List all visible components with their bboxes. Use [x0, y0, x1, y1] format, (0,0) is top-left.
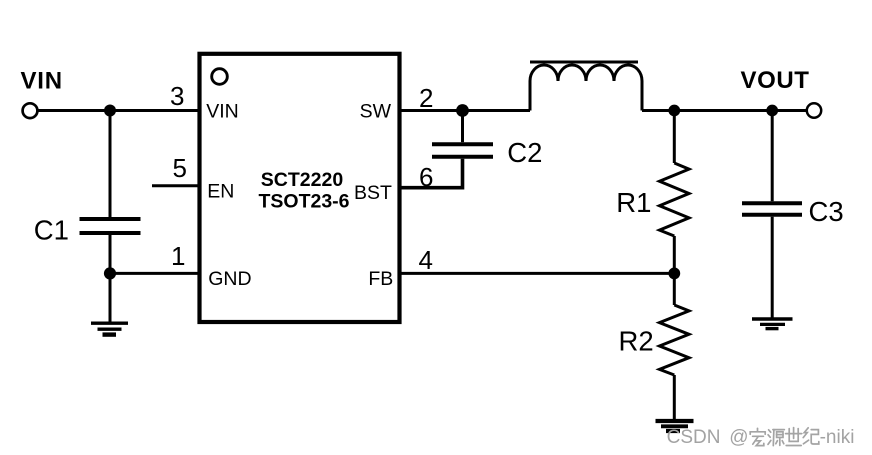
svg-text:1: 1 — [171, 241, 185, 271]
svg-text:R2: R2 — [619, 325, 654, 356]
svg-text:VIN: VIN — [21, 68, 63, 95]
svg-text:3: 3 — [170, 81, 184, 111]
svg-text:BST: BST — [354, 182, 392, 204]
svg-text:GND: GND — [208, 268, 251, 290]
svg-text:C3: C3 — [809, 196, 844, 227]
svg-text:6: 6 — [419, 162, 433, 192]
svg-text:C1: C1 — [34, 215, 69, 246]
svg-text:CSDN: CSDN — [667, 427, 721, 448]
svg-text:5: 5 — [173, 153, 187, 183]
svg-text:FB: FB — [368, 268, 393, 290]
svg-text:C2: C2 — [507, 137, 542, 168]
svg-text:@: @ — [729, 427, 748, 448]
svg-text:VIN: VIN — [206, 100, 239, 122]
svg-text:VOUT: VOUT — [741, 67, 810, 94]
svg-text:2: 2 — [419, 83, 433, 113]
svg-text:SCT2220: SCT2220 — [261, 169, 344, 191]
svg-text:-niki: -niki — [820, 427, 855, 448]
svg-text:EN: EN — [207, 180, 234, 202]
svg-text:TSOT23-6: TSOT23-6 — [258, 191, 349, 213]
svg-text:SW: SW — [360, 100, 392, 122]
svg-text:R1: R1 — [616, 187, 651, 218]
svg-text:4: 4 — [419, 245, 433, 275]
